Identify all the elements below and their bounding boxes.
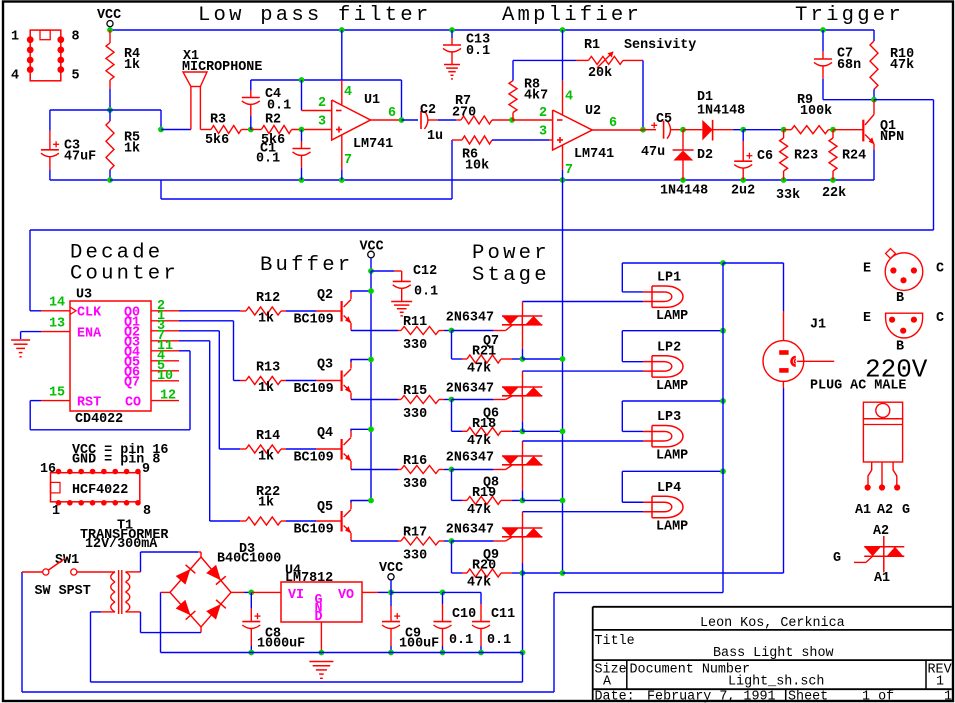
svg-text:2N6347: 2N6347 bbox=[446, 311, 494, 326]
svg-text:R19: R19 bbox=[472, 486, 496, 501]
svg-text:U3: U3 bbox=[76, 288, 92, 303]
svg-text:2N6347: 2N6347 bbox=[446, 451, 494, 466]
svg-text:A2: A2 bbox=[877, 503, 893, 518]
svg-text:14: 14 bbox=[49, 296, 65, 311]
svg-text:0.1: 0.1 bbox=[267, 99, 291, 114]
svg-text:LP3: LP3 bbox=[657, 410, 681, 425]
svg-text:LM741: LM741 bbox=[574, 147, 614, 162]
svg-text:C10: C10 bbox=[452, 607, 476, 622]
svg-text:C6: C6 bbox=[757, 149, 773, 164]
svg-text:R1: R1 bbox=[584, 38, 600, 53]
svg-text:33k: 33k bbox=[776, 188, 800, 203]
svg-text:BC109: BC109 bbox=[294, 523, 334, 538]
svg-text:SW SPST: SW SPST bbox=[35, 584, 91, 599]
svg-text:CO: CO bbox=[125, 396, 141, 411]
svg-text:1u: 1u bbox=[427, 129, 443, 144]
svg-text:2u2: 2u2 bbox=[731, 184, 755, 199]
svg-text:1N4148: 1N4148 bbox=[660, 184, 708, 199]
svg-text:Amplifier: Amplifier bbox=[502, 4, 642, 27]
svg-text:R20: R20 bbox=[472, 559, 496, 574]
svg-text:Title: Title bbox=[595, 634, 635, 649]
svg-text:BC109: BC109 bbox=[294, 313, 334, 328]
svg-text:4: 4 bbox=[11, 69, 19, 84]
svg-text:HCF4022: HCF4022 bbox=[72, 483, 128, 498]
svg-text:5k6: 5k6 bbox=[205, 133, 229, 148]
svg-text:LM7812: LM7812 bbox=[285, 571, 333, 586]
svg-text:NPN: NPN bbox=[880, 130, 904, 145]
svg-text:G: G bbox=[833, 551, 841, 566]
svg-text:1k: 1k bbox=[258, 381, 274, 396]
svg-text:R3: R3 bbox=[210, 113, 226, 128]
svg-text:47uF: 47uF bbox=[64, 150, 96, 165]
svg-text:1: 1 bbox=[52, 504, 60, 519]
svg-text:47k: 47k bbox=[467, 434, 491, 449]
svg-text:A1: A1 bbox=[874, 571, 890, 586]
svg-text:100k: 100k bbox=[800, 104, 832, 119]
svg-text:VCC: VCC bbox=[360, 240, 384, 255]
svg-text:U1: U1 bbox=[364, 93, 380, 108]
svg-text:U2: U2 bbox=[585, 104, 601, 119]
svg-text:Trigger: Trigger bbox=[795, 4, 904, 27]
svg-text:12: 12 bbox=[160, 389, 176, 404]
svg-text:47k: 47k bbox=[890, 58, 914, 73]
svg-text:R14: R14 bbox=[256, 429, 280, 444]
svg-text:1k: 1k bbox=[124, 58, 140, 73]
svg-text:VI: VI bbox=[288, 588, 304, 603]
svg-text:C5: C5 bbox=[656, 112, 672, 127]
svg-text:SW1: SW1 bbox=[55, 553, 79, 568]
svg-text:Sensivity: Sensivity bbox=[624, 38, 696, 53]
svg-text:330: 330 bbox=[403, 338, 427, 353]
svg-text:LM741: LM741 bbox=[353, 137, 393, 152]
svg-text:1000uF: 1000uF bbox=[257, 637, 305, 652]
svg-text:BC109: BC109 bbox=[294, 382, 334, 397]
svg-text:2N6347: 2N6347 bbox=[446, 523, 494, 538]
svg-text:1k: 1k bbox=[258, 496, 274, 511]
svg-text:R18: R18 bbox=[472, 417, 496, 432]
svg-text:February 7, 1991: February 7, 1991 bbox=[647, 690, 776, 703]
svg-text:MICROPHONE: MICROPHONE bbox=[182, 60, 262, 75]
svg-text:Bass Light show: Bass Light show bbox=[713, 646, 834, 661]
svg-text:2: 2 bbox=[539, 106, 547, 121]
svg-text:6: 6 bbox=[609, 116, 617, 131]
svg-text:R15: R15 bbox=[403, 384, 427, 399]
svg-text:G: G bbox=[902, 503, 910, 518]
svg-text:C: C bbox=[936, 262, 944, 277]
svg-text:R23: R23 bbox=[794, 149, 818, 164]
svg-text:Q5: Q5 bbox=[317, 500, 333, 515]
svg-text:BC109: BC109 bbox=[294, 451, 334, 466]
svg-text:R16: R16 bbox=[403, 454, 427, 469]
svg-text:4k7: 4k7 bbox=[524, 89, 548, 104]
svg-text:1 of: 1 of bbox=[862, 690, 894, 703]
svg-text:Sheet: Sheet bbox=[788, 690, 828, 703]
svg-text:C11: C11 bbox=[491, 607, 515, 622]
svg-text:1: 1 bbox=[936, 675, 944, 690]
svg-text:3: 3 bbox=[318, 115, 326, 130]
svg-text:Leon Kos, Cerknica: Leon Kos, Cerknica bbox=[700, 616, 845, 631]
svg-text:E: E bbox=[863, 262, 871, 277]
svg-text:Q7: Q7 bbox=[124, 375, 140, 390]
svg-text:0.1: 0.1 bbox=[414, 285, 438, 300]
svg-text:1N4148: 1N4148 bbox=[697, 104, 745, 119]
svg-text:R11: R11 bbox=[403, 315, 427, 330]
svg-text:13: 13 bbox=[49, 317, 65, 332]
svg-text:20k: 20k bbox=[588, 66, 612, 81]
svg-text:2: 2 bbox=[318, 96, 326, 111]
svg-text:LAMP: LAMP bbox=[656, 379, 688, 394]
svg-text:100uF: 100uF bbox=[399, 637, 439, 652]
svg-text:1k: 1k bbox=[258, 312, 274, 327]
svg-text:0.1: 0.1 bbox=[466, 44, 490, 59]
svg-text:LP1: LP1 bbox=[657, 271, 681, 286]
svg-text:B: B bbox=[896, 291, 904, 306]
svg-text:R12: R12 bbox=[256, 291, 280, 306]
svg-text:LAMP: LAMP bbox=[656, 309, 688, 324]
svg-text:0.1: 0.1 bbox=[449, 633, 473, 648]
svg-text:A2: A2 bbox=[873, 524, 889, 539]
svg-text:R17: R17 bbox=[403, 526, 427, 541]
svg-text:CD4022: CD4022 bbox=[75, 412, 123, 427]
svg-text:R2: R2 bbox=[265, 113, 281, 128]
svg-text:C2: C2 bbox=[420, 103, 436, 118]
svg-text:Power: Power bbox=[472, 242, 550, 265]
svg-text:Q2: Q2 bbox=[317, 288, 333, 303]
svg-text:330: 330 bbox=[403, 549, 427, 564]
svg-text:5: 5 bbox=[72, 69, 80, 84]
svg-text:ENA: ENA bbox=[77, 327, 102, 342]
svg-text:8: 8 bbox=[72, 30, 80, 45]
svg-text:7: 7 bbox=[565, 163, 573, 178]
svg-text:J1: J1 bbox=[810, 318, 826, 333]
svg-text:1: 1 bbox=[944, 690, 952, 703]
svg-text:Stage: Stage bbox=[472, 264, 550, 287]
svg-text:Low pass filter: Low pass filter bbox=[198, 4, 431, 27]
svg-text:0.1: 0.1 bbox=[487, 633, 511, 648]
svg-text:68n: 68n bbox=[837, 58, 861, 73]
svg-text:8: 8 bbox=[143, 504, 151, 519]
svg-text:0.1: 0.1 bbox=[256, 152, 280, 167]
svg-text:330: 330 bbox=[403, 407, 427, 422]
svg-text:3: 3 bbox=[539, 125, 547, 140]
svg-text:2N6347: 2N6347 bbox=[446, 382, 494, 397]
svg-text:Q3: Q3 bbox=[317, 358, 333, 373]
svg-text:270: 270 bbox=[452, 106, 476, 121]
svg-text:6: 6 bbox=[388, 106, 396, 121]
svg-text:Date:: Date: bbox=[595, 690, 635, 703]
svg-text:A1: A1 bbox=[855, 503, 871, 518]
svg-text:LAMP: LAMP bbox=[656, 449, 688, 464]
svg-text:LP4: LP4 bbox=[657, 481, 681, 496]
svg-text:LP2: LP2 bbox=[657, 340, 681, 355]
svg-text:D2: D2 bbox=[697, 148, 713, 163]
svg-text:1: 1 bbox=[11, 30, 19, 45]
svg-text:LAMP: LAMP bbox=[656, 520, 688, 535]
svg-text:330: 330 bbox=[403, 477, 427, 492]
svg-text:7: 7 bbox=[344, 153, 352, 168]
svg-text:1k: 1k bbox=[258, 450, 274, 465]
svg-text:E: E bbox=[863, 311, 871, 326]
svg-text:R21: R21 bbox=[472, 345, 496, 360]
svg-text:47k: 47k bbox=[467, 362, 491, 377]
svg-text:10k: 10k bbox=[465, 159, 489, 174]
svg-text:Counter: Counter bbox=[70, 263, 179, 286]
svg-text:4: 4 bbox=[344, 85, 352, 100]
svg-text:CLK: CLK bbox=[77, 306, 102, 321]
svg-text:Decade: Decade bbox=[70, 242, 163, 265]
svg-text:16: 16 bbox=[40, 462, 56, 477]
svg-text:47k: 47k bbox=[467, 576, 491, 591]
svg-text:RST: RST bbox=[77, 396, 101, 411]
svg-text:9: 9 bbox=[142, 462, 150, 477]
svg-text:12V/300mA: 12V/300mA bbox=[85, 537, 158, 552]
svg-text:47u: 47u bbox=[641, 145, 665, 160]
svg-text:4: 4 bbox=[565, 90, 573, 105]
svg-text:15: 15 bbox=[49, 386, 65, 401]
svg-text:C12: C12 bbox=[413, 264, 437, 279]
svg-text:B40C1000: B40C1000 bbox=[217, 552, 281, 567]
svg-text:C: C bbox=[936, 311, 944, 326]
svg-text:A: A bbox=[603, 675, 612, 690]
svg-text:R24: R24 bbox=[842, 149, 866, 164]
svg-text:Q4: Q4 bbox=[317, 426, 333, 441]
svg-text:1k: 1k bbox=[124, 142, 140, 157]
svg-text:10: 10 bbox=[157, 369, 173, 384]
svg-text:Light_sh.sch: Light_sh.sch bbox=[728, 675, 824, 690]
svg-text:R13: R13 bbox=[256, 361, 280, 376]
svg-text:Buffer: Buffer bbox=[260, 254, 353, 277]
svg-text:22k: 22k bbox=[822, 186, 846, 201]
svg-text:VO: VO bbox=[338, 588, 354, 603]
svg-text:B: B bbox=[896, 340, 904, 355]
svg-text:47k: 47k bbox=[467, 503, 491, 518]
svg-text:PLUG AC MALE: PLUG AC MALE bbox=[810, 379, 906, 394]
